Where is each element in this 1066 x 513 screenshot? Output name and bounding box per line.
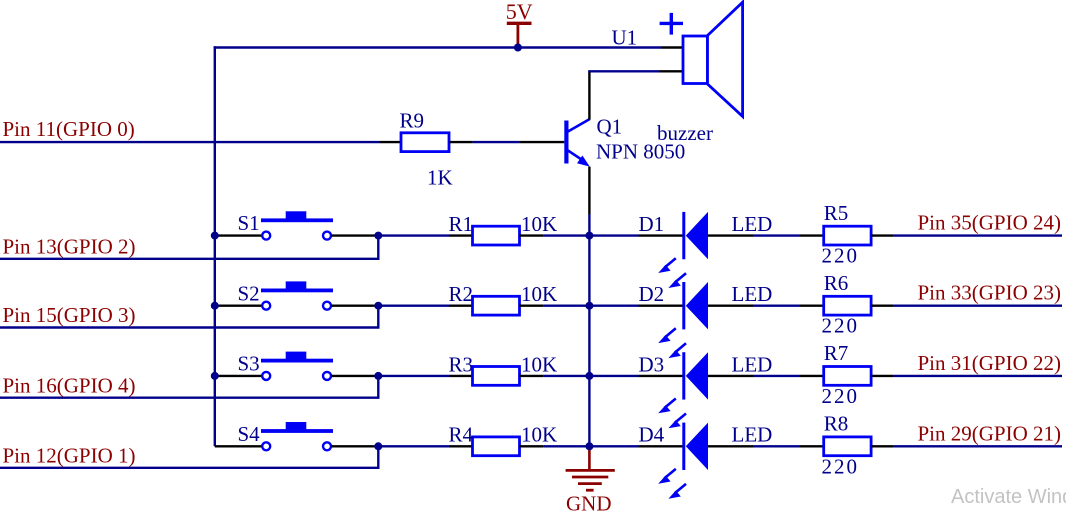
wire: Q1 collector to speaker [588,71,683,119]
svg-text:S4: S4 [238,422,261,446]
LED D4 [682,423,708,470]
label Pin 11(GPIO 0) [3,117,135,141]
wire: switch S3 to junction [331,375,378,377]
svg-text:R6: R6 [824,271,849,295]
svg-text:LED: LED [732,423,773,447]
wire: R6 to Pin 33(GPIO 23) [871,305,1062,307]
wire: switch S2 to junction [331,305,378,307]
junction: center column row 4 [585,442,593,450]
junction: switch S2 output [374,302,382,310]
label S3 [238,352,260,376]
resistor R5 [824,226,871,245]
label 220 of R7 [822,384,860,408]
wire: column to LED D4 [589,445,683,447]
label 5V [506,0,533,24]
label Pin 16(GPIO 4) [3,373,136,397]
svg-text:LED: LED [732,212,773,236]
svg-text:R9: R9 [400,108,425,132]
label LED of D2 [732,282,773,306]
label LED of D3 [732,352,773,376]
junction: rail at S3 [211,372,219,380]
svg-text:220: 220 [822,244,860,268]
wire: R4 to center column [520,445,590,447]
switch S3 [261,352,333,380]
wire: junction to R4 [378,445,473,447]
label R9 [400,108,425,132]
power 5V symbol [507,23,532,46]
LED D1 [682,212,708,259]
LED D1 emission arrows [658,258,686,288]
LED D3 [682,352,708,399]
svg-text:Pin 31(GPIO 22): Pin 31(GPIO 22) [918,351,1062,375]
svg-text:Q1: Q1 [597,115,623,139]
svg-text:R7: R7 [824,341,849,365]
resistor R3 [473,367,520,386]
LED D2 [682,282,708,329]
svg-text:5V: 5V [506,0,533,24]
svg-text:Pin 16(GPIO 4): Pin 16(GPIO 4) [3,373,136,397]
label R4 [449,423,474,447]
label Pin 29(GPIO 21) [918,421,1062,445]
label S4 [238,422,261,446]
label S1 [238,211,260,235]
wire: column to LED D2 [589,305,683,307]
svg-text:LED: LED [732,352,773,376]
svg-text:Pin 13(GPIO 2): Pin 13(GPIO 2) [3,234,136,258]
label Pin 35(GPIO 24) [918,211,1062,235]
watermark Activate Windows [951,486,1066,508]
svg-text:220: 220 [822,454,860,478]
label R6 [824,271,849,295]
junction: rail at S1 [211,232,219,240]
svg-text:D4: D4 [639,423,665,447]
transistor Q1 (NPN 8050) [564,119,590,167]
svg-text:R4: R4 [449,423,474,447]
svg-text:10K: 10K [521,423,557,447]
junction: 5V rail [514,44,522,52]
svg-text:Pin 15(GPIO 3): Pin 15(GPIO 3) [3,303,136,327]
label 220 of R8 [822,454,860,478]
label D2 [639,282,665,306]
wire: junction to R3 [378,375,473,377]
svg-text:buzzer: buzzer [657,121,713,145]
wire: R2 to center column [520,305,590,307]
label 10K of R1 [521,212,557,236]
label 1K [427,166,453,190]
wire: 5V rail to speaker pin1 [661,46,683,48]
wire: R9 to Q1 base [449,141,564,143]
label D4 [639,423,665,447]
label Pin 13(GPIO 2) [3,234,136,258]
label LED of D4 [732,423,773,447]
svg-text:Pin 29(GPIO 21): Pin 29(GPIO 21) [918,421,1062,445]
svg-text:GND: GND [566,492,612,513]
wire: Pin 12(GPIO 1) net [0,446,380,468]
svg-text:R3: R3 [449,352,474,376]
ground GND symbol [566,446,615,490]
junction: switch S3 output [374,372,382,380]
wire: junction to R1 [378,234,473,236]
wire: junction to R2 [378,305,473,307]
resistor R7 [824,367,871,386]
resistor R8 [824,437,871,456]
wire: column to LED D1 [589,234,683,236]
wire: rail to switch S4 [215,445,262,447]
label D3 [639,352,665,376]
wire: Pin 16(GPIO 4) net [0,376,380,398]
wire: LED D3 to R7 [708,375,824,377]
svg-text:S2: S2 [238,281,260,305]
LED D2 emission arrows [658,328,686,358]
svg-text:10K: 10K [521,282,557,306]
resistor R2 [473,296,520,315]
label D1 [639,212,665,236]
junction: center column row 3 [585,372,593,380]
junction: switch S1 output [374,232,382,240]
label Pin 31(GPIO 22) [918,351,1062,375]
label 10K of R3 [521,352,557,376]
resistor R6 [824,296,871,315]
label R3 [449,352,474,376]
LED D4 emission arrows [658,469,686,499]
wire: Pin11 to R9 [0,141,401,143]
wire: Q1 emitter down to LED rail [588,167,590,447]
wire: rail to switch S3 [215,375,262,377]
svg-text:R5: R5 [824,201,849,225]
label buzzer [657,121,713,145]
wire: left vertical rail [214,46,216,446]
wire: LED D2 to R6 [708,305,824,307]
svg-text:R2: R2 [449,282,474,306]
svg-text:D1: D1 [639,212,665,236]
svg-text:S3: S3 [238,352,260,376]
label R8 [824,412,849,436]
label R1 [449,212,474,236]
svg-text:Pin 33(GPIO 23): Pin 33(GPIO 23) [918,281,1062,305]
label Q1 [597,115,623,139]
resistor R4 [473,437,520,456]
wire: R5 to Pin 35(GPIO 24) [871,234,1062,236]
label 10K of R4 [521,423,557,447]
svg-text:R1: R1 [449,212,474,236]
plus sign of speaker [660,13,683,35]
label GND [566,492,612,513]
wire: R1 to center column [520,234,590,236]
svg-text:10K: 10K [521,212,557,236]
wire: R7 to Pin 31(GPIO 22) [871,375,1062,377]
label Pin 33(GPIO 23) [918,281,1062,305]
svg-text:Pin 12(GPIO 1): Pin 12(GPIO 1) [3,443,136,467]
svg-text:220: 220 [822,314,860,338]
resistor R9 [401,133,449,152]
svg-text:10K: 10K [521,352,557,376]
label S2 [238,281,260,305]
label NPN 8050 [596,139,685,163]
svg-text:Activate Windows: Activate Windows [951,486,1066,508]
speaker U1 (buzzer) [683,2,743,116]
label Pin 15(GPIO 3) [3,303,136,327]
label R7 [824,341,849,365]
label 10K of R2 [521,282,557,306]
svg-text:D2: D2 [639,282,665,306]
label 220 of R5 [822,244,860,268]
wire: LED D1 to R5 [708,234,824,236]
wire: 5V top rail [214,46,661,48]
junction: switch S4 output [374,442,382,450]
svg-text:LED: LED [732,282,773,306]
svg-text:D3: D3 [639,352,665,376]
label LED of D1 [732,212,773,236]
wire: rail to switch S1 [215,234,262,236]
label 220 of R6 [822,314,860,338]
wire: R8 to Pin 29(GPIO 21) [871,445,1062,447]
junction: center column row 2 [585,302,593,310]
wire: switch S1 to junction [331,234,378,236]
wire: Pin 13(GPIO 2) net [0,236,380,259]
svg-text:220: 220 [822,384,860,408]
svg-text:1K: 1K [427,166,453,190]
label R2 [449,282,474,306]
wire: R3 to center column [520,375,590,377]
svg-text:S1: S1 [238,211,260,235]
wire: Pin 15(GPIO 3) net [0,306,380,328]
wire: LED D4 to R8 [708,445,824,447]
junction: rail at S2 [211,302,219,310]
label U1 [612,25,638,49]
switch S1 [261,211,333,239]
label Pin 12(GPIO 1) [3,443,136,467]
wire: rail to switch S2 [215,305,262,307]
svg-text:U1: U1 [612,25,638,49]
switch S2 [261,281,333,309]
LED D3 emission arrows [658,399,686,429]
svg-text:Pin 11(GPIO 0): Pin 11(GPIO 0) [3,117,135,141]
switch S4 [261,422,333,450]
resistor R1 [473,226,520,245]
svg-text:Pin 35(GPIO 24): Pin 35(GPIO 24) [918,211,1062,235]
label R5 [824,201,849,225]
junction: center column row 1 [585,232,593,240]
wire: switch S4 to junction [331,445,378,447]
svg-text:R8: R8 [824,412,849,436]
wire: column to LED D3 [589,375,683,377]
